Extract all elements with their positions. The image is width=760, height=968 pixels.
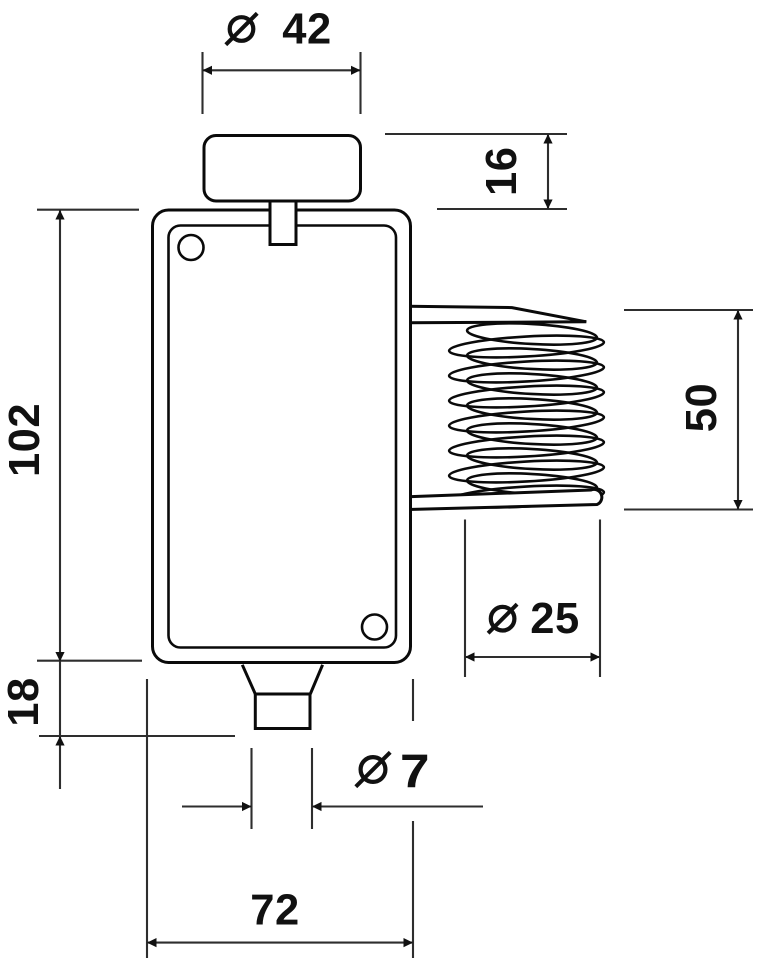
svg-text:50: 50 [678, 383, 726, 432]
svg-text:16: 16 [478, 147, 526, 196]
svg-text:102: 102 [1, 403, 49, 477]
svg-text:72: 72 [250, 887, 299, 935]
svg-text:25: 25 [530, 595, 579, 643]
svg-text:42: 42 [282, 5, 331, 53]
svg-text:7: 7 [400, 745, 430, 797]
svg-text:18: 18 [0, 677, 48, 726]
